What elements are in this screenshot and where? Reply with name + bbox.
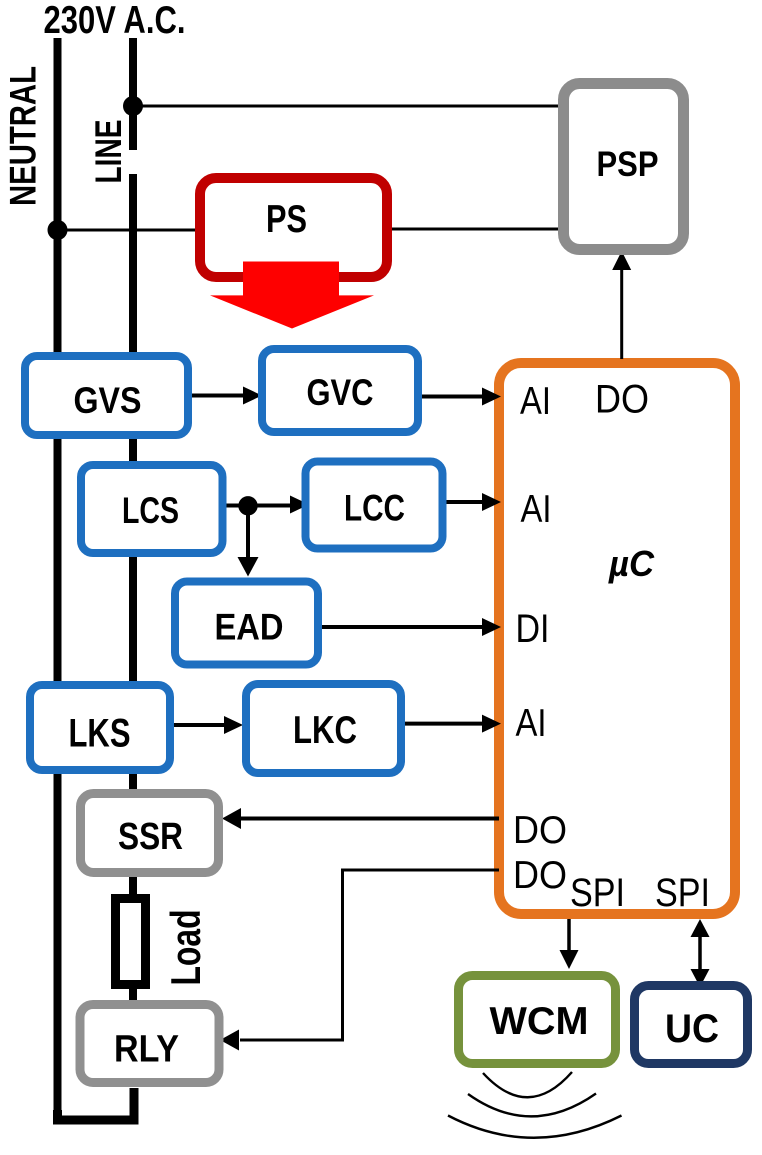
wire uC DO to PSP arrow <box>620 269 623 359</box>
svg-text:230V A.C.: 230V A.C. <box>44 0 186 42</box>
node junction on NEUTRAL <box>48 220 68 240</box>
block EAD <box>175 582 318 665</box>
svg-text:LKS: LKS <box>69 712 131 756</box>
wire junction to EAD arrow <box>246 506 250 558</box>
block LKC <box>246 684 401 773</box>
block LCS <box>81 465 223 553</box>
svg-text:EAD: EAD <box>215 607 284 648</box>
wire LKS to LKC arrow <box>174 723 225 727</box>
svg-text:µC: µC <box>608 543 655 584</box>
svg-text:LKC: LKC <box>293 709 357 752</box>
svg-text:DO: DO <box>513 854 567 897</box>
node junction on LINE <box>123 96 143 116</box>
svg-text:RLY: RLY <box>114 1029 179 1071</box>
svg-text:LINE: LINE <box>88 120 129 184</box>
block uC (microcontroller) <box>499 363 735 914</box>
block GVS <box>25 356 188 435</box>
wire gap under LINE label <box>92 150 144 174</box>
svg-text:UC: UC <box>665 1007 719 1051</box>
red power arrow from PS <box>210 262 374 329</box>
block UC <box>635 986 748 1064</box>
component Load resistor <box>116 899 146 985</box>
wire LINE to PSP <box>133 105 559 108</box>
wire LCC to uC arrow <box>446 500 483 504</box>
svg-text:SPI: SPI <box>570 871 625 915</box>
block WCM <box>459 976 616 1064</box>
block LKS <box>30 685 170 770</box>
block GVC <box>262 349 418 432</box>
svg-text:LCC: LCC <box>344 488 405 529</box>
wire bottom return U <box>58 1088 135 1120</box>
wire LCS to LCC arrow <box>226 504 292 508</box>
wire EAD to uC arrow <box>322 625 483 629</box>
svg-text:DO: DO <box>595 378 649 422</box>
wire uC DO to RLY arrow <box>240 870 499 1040</box>
node junction LCS branch <box>238 496 257 515</box>
wire uC SPI to WCM arrow <box>567 919 571 951</box>
block SSR <box>81 794 219 873</box>
wire LKC to uC arrow <box>405 722 483 726</box>
svg-text:DI: DI <box>516 607 550 651</box>
svg-text:SSR: SSR <box>118 816 183 858</box>
block LCC <box>306 462 443 549</box>
svg-text:PSP: PSP <box>597 145 659 184</box>
svg-text:PS: PS <box>266 198 307 241</box>
svg-text:AI: AI <box>516 702 547 745</box>
wire PS to PSP <box>391 228 559 231</box>
svg-text:NEUTRAL: NEUTRAL <box>3 66 44 206</box>
svg-text:LCS: LCS <box>122 490 179 531</box>
antenna arcs of WCM <box>483 1072 572 1097</box>
wire GVS to GVC arrow <box>192 394 244 398</box>
wire LINE vertical <box>129 38 137 1005</box>
wire NEUTRAL to PS <box>57 229 196 232</box>
wire GVC to uC arrow <box>422 395 483 399</box>
svg-text:AI: AI <box>520 380 551 423</box>
svg-text:GVS: GVS <box>74 380 142 421</box>
block PSP <box>564 84 684 250</box>
svg-text:GVC: GVC <box>307 372 374 413</box>
svg-text:AI: AI <box>521 488 552 531</box>
block RLY <box>80 1005 219 1083</box>
svg-text:WCM: WCM <box>490 1000 589 1043</box>
wire uC SPI to UC double arrow <box>698 935 702 971</box>
svg-text:SPI: SPI <box>655 871 710 915</box>
svg-text:Load: Load <box>162 910 209 986</box>
wire NEUTRAL vertical <box>54 38 62 1116</box>
block PS <box>200 178 387 277</box>
wire uC DO to SSR arrow <box>240 817 499 821</box>
svg-text:DO: DO <box>513 809 567 852</box>
